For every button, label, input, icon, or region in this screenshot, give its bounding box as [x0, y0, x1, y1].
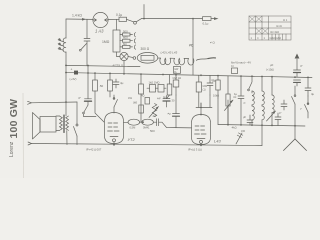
wire x88 rail to grid cap	[87, 66, 89, 99]
svg-text:0,5M: 0,5M	[130, 126, 136, 130]
svg-text:4mΩ: 4mΩ	[276, 24, 282, 28]
wire lamp to choke terminal	[128, 57, 133, 58]
switch above tube1	[113, 95, 133, 113]
junction dots y125	[227, 124, 296, 127]
anode lead tube V2	[124, 121, 129, 123]
antenna lead x144	[143, 5, 145, 19]
wire: vertical x77 with switch	[74, 102, 79, 145]
capacitor x210	[207, 76, 216, 96]
junction dot tube V2 cathode	[113, 144, 115, 146]
tube V2 envelope	[105, 113, 124, 146]
tap 2 with contact	[120, 36, 136, 44]
svg-text:IP+42 Δ 007: IP+42 Δ 007	[86, 148, 102, 152]
arrow on grid wire	[82, 18, 86, 21]
svg-text:10kΩ: 10kΩ	[213, 94, 219, 98]
resistor R6	[108, 73, 113, 97]
junction	[142, 121, 144, 123]
svg-text:300 Ω: 300 Ω	[141, 47, 150, 51]
terminal circle	[134, 21, 137, 24]
bottom bus corner up x262	[261, 125, 263, 145]
svg-text:L43 L43 L43: L43 L43 L43	[161, 51, 178, 55]
svg-text:4μ: 4μ	[163, 95, 166, 99]
svg-text:4°: 4°	[279, 111, 281, 115]
potentiometer zigzag	[133, 101, 159, 118]
tube V1 (circle)	[93, 12, 108, 27]
svg-text:(+4V): (+4V)	[70, 77, 77, 81]
arrow end of top line	[214, 17, 219, 20]
coupling capacitor C10	[150, 114, 159, 133]
svg-text:4/779 Ω: 4/779 Ω	[113, 64, 124, 68]
dial lamp	[120, 52, 128, 60]
svg-text:(+10Δ): (+10Δ)	[266, 68, 274, 72]
capacitor C8	[157, 96, 170, 108]
wire terminal up to top line	[136, 19, 141, 22]
svg-text:Ω 1: Ω 1	[283, 18, 288, 22]
tube V3 envelope	[192, 103, 211, 145]
table top right	[249, 16, 291, 40]
page fold line	[22, 93, 25, 178]
flex wire squiggle	[196, 59, 208, 61]
svg-text:6Ω: 6Ω	[123, 42, 127, 46]
svg-text:4°: 4°	[300, 64, 303, 68]
junction dot tube V3 cathode	[200, 145, 202, 147]
svg-text:4Ω 4kΩ: 4Ω 4kΩ	[270, 30, 279, 34]
svg-text:(W): (W)	[133, 101, 137, 105]
mains cord	[294, 126, 296, 139]
+B terminal	[65, 65, 78, 104]
svg-text:44°: 44°	[157, 97, 161, 101]
wire x218 resistor to y125	[218, 98, 228, 125]
svg-text:μF: μF	[270, 63, 274, 67]
svg-text:600: 600	[123, 36, 128, 40]
paper shading	[0, 0, 320, 178]
coil winding x262	[262, 77, 264, 126]
connector plug bottom left	[28, 142, 32, 145]
svg-text:1,4 kΩ: 1,4 kΩ	[72, 14, 82, 18]
svg-text:.50: .50	[99, 84, 104, 88]
switch column x295	[292, 86, 296, 126]
switch contact to tube1 grid	[83, 105, 96, 117]
svg-text:Lorenz: Lorenz	[9, 141, 15, 157]
svg-text:+: +	[71, 68, 73, 72]
svg-text:IP+(Δ 3 (Δ): IP+(Δ 3 (Δ)	[188, 148, 202, 152]
svg-text:1μ: 1μ	[234, 92, 238, 96]
svg-text:4μ: 4μ	[120, 81, 124, 85]
brand label Lorenz 100GW	[8, 99, 20, 157]
wire cap to grid stopper	[159, 122, 192, 128]
mains plug V	[284, 139, 307, 151]
NF choke oval 1	[128, 119, 140, 129]
capacitor 0.1u box	[116, 13, 127, 22]
fuse slanted Si	[231, 126, 246, 144]
screen resistor box x176	[173, 75, 182, 95]
tap 3 with contact	[120, 42, 136, 50]
switch column x307	[300, 77, 315, 118]
box x234 on bus	[231, 65, 238, 74]
terminal choke	[133, 57, 136, 60]
junction top line	[143, 18, 145, 20]
rail y65	[66, 65, 140, 66]
NF choke oval 2	[140, 119, 154, 129]
svg-text:УТ2: УТ2	[128, 137, 136, 142]
wire: drop x193 to coil row	[192, 19, 194, 76]
coil row L4 L5 L6	[158, 51, 194, 65]
wire: bottom bus y144	[31, 144, 262, 146]
wire x87 drop with capacitor and contact	[79, 19, 90, 65]
coil winding x252	[252, 91, 254, 125]
svg-text:6mV(max)~ 4V: 6mV(max)~ 4V	[231, 61, 251, 65]
vertical resistor R10	[167, 75, 172, 99]
connector plug top left	[28, 101, 32, 104]
wire ladder bottom to lamp	[117, 52, 120, 57]
resistor box on top line	[203, 17, 212, 26]
tap 1 with contact	[120, 29, 136, 37]
svg-text:ΩΔΩΩΔΩ: ΩΔΩΩΔΩ	[270, 36, 282, 40]
svg-text:-4kΩ: -4kΩ	[231, 126, 237, 130]
anode resistor x201	[196, 75, 212, 108]
coil winding x272	[267, 77, 276, 126]
resistor pair boxes R8 R9	[147, 81, 166, 93]
wire lamp to bus	[123, 61, 125, 74]
svg-text:4Ω: 4Ω	[141, 94, 144, 98]
volume ladder R2	[102, 19, 120, 52]
small box R11	[141, 94, 150, 105]
svg-text:≠μ: ≠μ	[168, 112, 172, 116]
svg-text:500: 500	[150, 129, 155, 133]
svg-text:(1): (1)	[203, 88, 206, 92]
right: heater dropper contact x252	[248, 76, 252, 93]
electrolytic x295 top	[294, 54, 303, 87]
svg-text:4μ: 4μ	[311, 92, 315, 96]
resistor box x228 with wiper	[225, 76, 237, 125]
resistor R5	[93, 73, 104, 122]
bus junction dots	[87, 65, 309, 79]
svg-text:0M41: 0M41	[143, 126, 150, 130]
svg-text:GW: GW	[203, 84, 208, 88]
antenna coil L1 with arrows	[58, 19, 67, 102]
choke Dr1 (oval with core)	[137, 47, 158, 63]
svg-text:1 A3: 1 A3	[95, 29, 104, 34]
box on bus x186	[174, 67, 181, 74]
svg-text:GW 1Ω: GW 1Ω	[173, 76, 182, 80]
wire: top line	[142, 18, 215, 20]
svg-text:0,1μ: 0,1μ	[116, 13, 122, 17]
cap on y125 at x250	[243, 115, 253, 125]
speaker LS	[33, 113, 57, 140]
main bus	[66, 73, 312, 78]
svg-text:0,1μ: 0,1μ	[203, 22, 209, 26]
cap small x284	[279, 100, 287, 115]
resistor box x218	[213, 76, 220, 98]
svg-text:L43: L43	[214, 139, 221, 144]
output transformer Tr2	[56, 102, 69, 144]
svg-text:μF: μF	[243, 115, 246, 119]
wire cap to terminal	[127, 19, 134, 22]
svg-text:≠C: ≠C	[189, 44, 194, 48]
wire: top left to tube	[66, 18, 93, 20]
capacitor C5	[78, 96, 92, 105]
capacitor C6	[113, 79, 124, 88]
svg-text:1MΩ: 1MΩ	[102, 40, 110, 44]
cap x278 on y125	[275, 113, 281, 126]
capacitor x241	[234, 76, 247, 125]
wire tube to cap	[108, 18, 119, 20]
grid capacitor C11	[168, 95, 180, 128]
wire: speaker top feed y101	[31, 101, 77, 104]
svg-text:500: 500	[123, 29, 128, 33]
svg-text:1kΩ 1MΩ: 1kΩ 1MΩ	[149, 81, 160, 85]
resistor box x141 (screen)	[139, 74, 144, 122]
wire y125 bus	[218, 125, 305, 127]
svg-text:≠ Ω: ≠ Ω	[210, 41, 215, 45]
svg-text:100 GW: 100 GW	[8, 99, 20, 139]
